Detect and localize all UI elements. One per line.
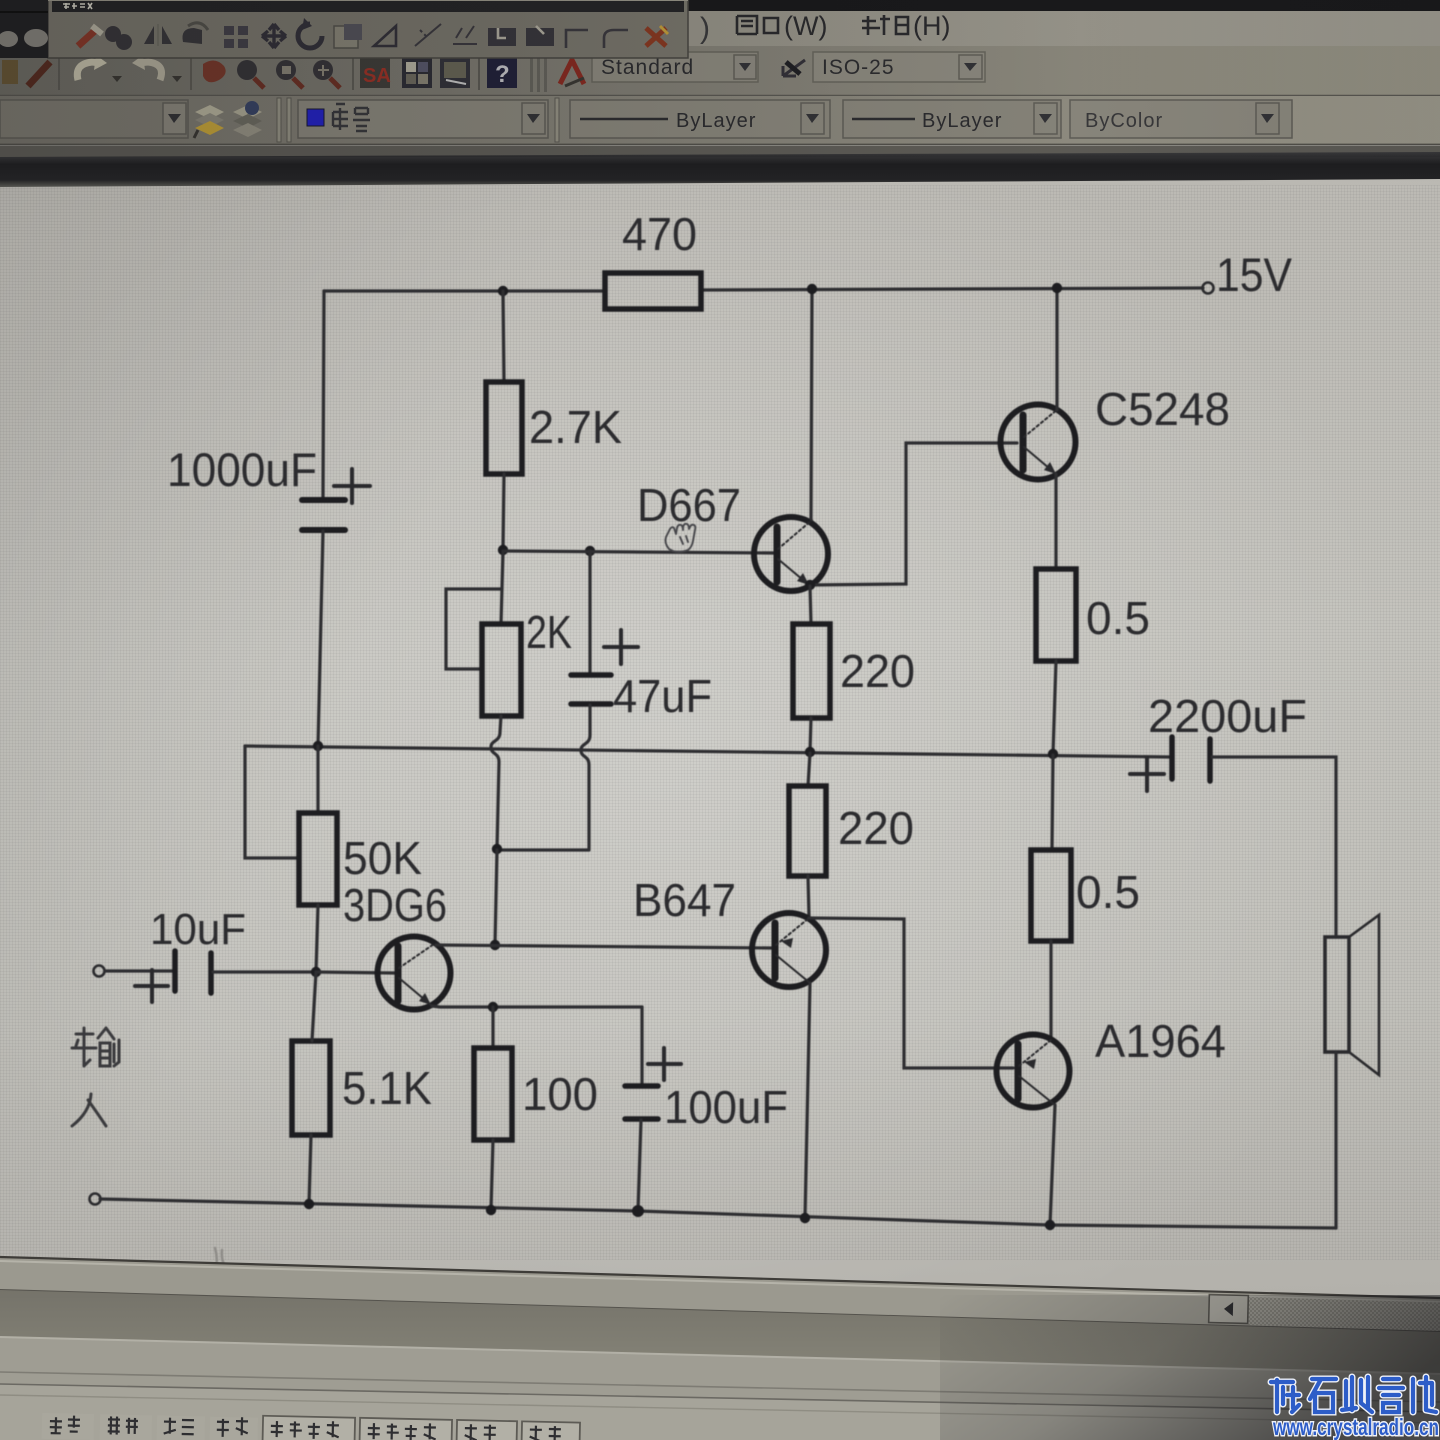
shadow strip under rows bbox=[0, 146, 1440, 157]
label: 1000uF plus sign bbox=[334, 469, 370, 503]
object properties row bbox=[0, 96, 1440, 145]
standard toolbar row bbox=[0, 46, 1440, 96]
label: 1000uF bbox=[167, 443, 317, 496]
svg-text:220: 220 bbox=[838, 802, 914, 854]
label: 50K bbox=[343, 832, 422, 884]
svg-text:47uF: 47uF bbox=[613, 670, 712, 722]
label: 5.1K bbox=[342, 1062, 432, 1114]
label: 2K bbox=[526, 606, 572, 658]
transistor Q1 3DG6 bbox=[378, 937, 451, 1010]
label: 470 bbox=[622, 208, 697, 260]
wire: 220 upper top lead bbox=[810, 586, 811, 624]
junction dot bias node right bbox=[585, 546, 595, 556]
wire: input terminal to 10uF bbox=[105, 969, 173, 972]
standard style combo bbox=[592, 52, 758, 82]
label: 3DG6 bbox=[343, 879, 447, 931]
wire: 0.5 lower bottom to A1964 collector bbox=[1049, 941, 1052, 1040]
wire: B647 collector node runs bbox=[809, 918, 1013, 1068]
svg-text:0.5: 0.5 bbox=[1086, 592, 1150, 644]
junction dot bottom rail A1964 bbox=[1045, 1220, 1055, 1230]
junction dot bottom rail 5.1K bbox=[304, 1199, 314, 1209]
wire: left supply drop to 1000uF bbox=[323, 291, 324, 499]
wire: 220 lower top lead bbox=[808, 753, 810, 786]
svg-text:220: 220 bbox=[840, 645, 915, 697]
button lineweight bbox=[456, 1420, 517, 1440]
svg-text:100uF: 100uF bbox=[664, 1081, 788, 1133]
dark top-left corner bbox=[0, 0, 48, 58]
transistor Q4 C5248 bbox=[1001, 405, 1076, 480]
wire: 2K/47uF tie bar bbox=[497, 848, 589, 851]
command window band bbox=[0, 1290, 1440, 1440]
label: A1964 bbox=[1095, 1015, 1226, 1067]
transistor Q5 A1964 bbox=[997, 1035, 1070, 1108]
resistor 0.5 upper bbox=[1036, 569, 1076, 661]
wire: speaker bottom to rail bbox=[1334, 1052, 1337, 1228]
node: 15V terminal bbox=[1203, 283, 1214, 294]
wire: 2K bottom lead with crossover jog at mid rail bbox=[491, 716, 501, 849]
label: 47uF plus sign bbox=[604, 630, 638, 664]
wire: 50K wiper arm bbox=[245, 746, 299, 858]
separator ridges bbox=[277, 98, 291, 142]
resistor 100 bbox=[474, 1048, 512, 1140]
transistor Q3 B647 bbox=[752, 913, 826, 987]
label: 0.5 lower bbox=[1076, 866, 1140, 918]
resistor 220 upper bbox=[793, 624, 830, 718]
wire: tie bar down to B647 base line bbox=[495, 850, 497, 945]
wire: D667 emitter node runs bbox=[810, 443, 1017, 585]
lcd texture bbox=[0, 185, 1440, 1260]
svg-text:2K: 2K bbox=[526, 606, 572, 658]
junction dot D667 emitter bbox=[805, 580, 815, 590]
wire: D667 collector to rail bbox=[811, 289, 812, 519]
label: B647 bbox=[633, 874, 736, 926]
wire: 100 bottom lead bbox=[491, 1140, 493, 1210]
wire: 5.1K top lead bbox=[312, 972, 316, 1041]
junction dot top rail C5248 bbox=[1052, 283, 1062, 293]
wire: 2.7K top lead bbox=[503, 291, 504, 382]
svg-text:2.7K: 2.7K bbox=[529, 401, 622, 453]
junction dot on B647 base line bbox=[490, 940, 500, 950]
wire: C5248 emitter to 0.5 bbox=[1054, 474, 1057, 569]
color combo with blue swatch bbox=[298, 100, 548, 138]
layer icons bbox=[194, 101, 262, 138]
button grid bbox=[100, 1414, 153, 1440]
junction dot at 470 / 2.7K node bbox=[498, 286, 508, 296]
label: 0.5 upper bbox=[1086, 592, 1150, 644]
wire: 3DG6 collector to B647 base bbox=[436, 945, 771, 948]
label: 10uF plus sign bbox=[135, 970, 168, 1002]
junction dot bottom rail B647 bbox=[800, 1213, 810, 1223]
wire: 1000uF negative to mid rail bbox=[318, 531, 323, 746]
wire: 100uF top lead bbox=[640, 1007, 643, 1085]
label: input chinese ru bbox=[72, 1094, 106, 1126]
button otrack bbox=[359, 1418, 452, 1440]
dark band top of drawing area bbox=[0, 152, 1440, 187]
svg-text:D667: D667 bbox=[637, 479, 741, 531]
dim style icon bbox=[783, 60, 805, 76]
wire: bias node to D667 base bbox=[503, 551, 773, 553]
row1 icons bbox=[2, 54, 584, 92]
label: input chinese shu bbox=[72, 1028, 119, 1066]
label: 2200uF bbox=[1148, 690, 1307, 742]
junction dot 50K top at rail bbox=[313, 741, 323, 751]
button model bbox=[521, 1421, 580, 1440]
junction dot top rail D667 bbox=[807, 284, 817, 294]
junction dot base node 3DG6 bbox=[311, 967, 321, 977]
junction dot mid rail right bbox=[1048, 749, 1058, 759]
linetype combo ByLayer bbox=[570, 100, 830, 138]
svg-text:C5248: C5248 bbox=[1095, 383, 1230, 435]
resistor 470 bbox=[605, 273, 701, 309]
top chrome bbox=[0, 0, 1440, 192]
wire: 3DG6 emitter run bbox=[432, 1006, 642, 1007]
label: 100uF bbox=[664, 1081, 788, 1133]
separator ridges bbox=[555, 98, 559, 142]
svg-text:www.crystalradio.cn: www.crystalradio.cn bbox=[1272, 1414, 1439, 1440]
svg-text:3DG6: 3DG6 bbox=[343, 879, 447, 931]
wire: 2200uF to speaker bbox=[1212, 757, 1336, 937]
wire: 5.1K bottom lead bbox=[309, 1135, 311, 1204]
menu bar strip bbox=[0, 0, 1440, 46]
smudge mark bbox=[215, 1248, 227, 1274]
status bar bbox=[0, 1372, 1440, 1440]
node: input terminal top bbox=[94, 966, 105, 977]
label: 47uF bbox=[613, 670, 712, 722]
wire: +15V top rail right segment bbox=[701, 288, 1203, 290]
junction dot bottom rail 100 bbox=[486, 1205, 496, 1215]
label: 100uF plus sign bbox=[648, 1048, 681, 1080]
button ortho bbox=[157, 1415, 206, 1440]
label: 2200uF plus sign bbox=[1130, 758, 1164, 791]
wire: 2.7K bottom lead to bias node bbox=[503, 474, 504, 550]
svg-text:5.1K: 5.1K bbox=[342, 1062, 432, 1114]
svg-text:10uF: 10uF bbox=[150, 905, 246, 954]
svg-text:A1964: A1964 bbox=[1095, 1015, 1226, 1067]
capacitor C 1000uF plates bbox=[302, 500, 345, 530]
svg-text:50K: 50K bbox=[343, 832, 422, 884]
label: 100 bbox=[522, 1068, 598, 1120]
wire: 2K top lead bbox=[501, 551, 503, 624]
wire: A1964 emitter to bottom rail bbox=[1050, 1105, 1055, 1225]
svg-text:2200uF: 2200uF bbox=[1148, 690, 1307, 742]
capacitor C 10uF plates bbox=[175, 951, 211, 993]
resistor 2.7K bbox=[486, 382, 522, 474]
bottom chrome bbox=[0, 1240, 1440, 1440]
layer combo empty bbox=[0, 100, 188, 138]
wire: C5248 collector to rail bbox=[1055, 288, 1058, 410]
ISO-25 combo bbox=[813, 52, 985, 82]
cursor: pan hand icon bbox=[665, 524, 695, 552]
junction dot emitter node bbox=[488, 1002, 498, 1012]
speaker LS1 bbox=[1325, 915, 1379, 1075]
wire: 0.5 lower top lead bbox=[1052, 755, 1053, 850]
transistor Q2 D667 bbox=[754, 517, 828, 591]
node: input terminal bottom bbox=[90, 1194, 101, 1205]
button polar bbox=[210, 1417, 259, 1440]
label: 2.7K bbox=[529, 401, 622, 453]
floating modify toolbar bbox=[48, 0, 688, 58]
button osnap bbox=[263, 1416, 356, 1440]
capacitor C 47uF plates bbox=[571, 675, 611, 704]
label: C5248 bbox=[1095, 383, 1230, 435]
wire: 2K wiper short bracket bbox=[446, 589, 502, 669]
wire: mid output rail bbox=[245, 746, 1170, 757]
resistor 5.1K bbox=[292, 1041, 330, 1135]
wire: 100 top lead bbox=[491, 1007, 494, 1048]
plot style combo ByColor bbox=[1070, 100, 1292, 138]
svg-text:15V: 15V bbox=[1216, 248, 1293, 301]
svg-text:0.5: 0.5 bbox=[1076, 866, 1140, 918]
resistor 220 lower bbox=[789, 786, 826, 876]
svg-text:100: 100 bbox=[522, 1068, 598, 1120]
resistor 50K (pot) bbox=[299, 813, 337, 905]
wire: base node to 3DG6 bbox=[316, 972, 394, 973]
wire: 100uF bottom lead bbox=[638, 1120, 641, 1211]
watermark bbox=[1140, 1358, 1440, 1440]
lineweight combo ByLayer bbox=[843, 100, 1061, 138]
horizontal scrollbar band bbox=[0, 1257, 1440, 1332]
button snap bbox=[42, 1413, 95, 1440]
label: 15V bbox=[1216, 248, 1293, 301]
label: 220 lower bbox=[838, 802, 914, 854]
svg-text:B647: B647 bbox=[633, 874, 736, 926]
wire: B647 emitter to bottom rail bbox=[805, 983, 810, 1218]
capacitor C 100uF plates bbox=[625, 1086, 658, 1119]
junction dot mid rail left bbox=[805, 747, 815, 757]
junction dot bottom rail 100uF bbox=[632, 1205, 644, 1217]
modify icons bbox=[78, 18, 668, 50]
junction dot 2K-47uF tie bbox=[492, 844, 502, 854]
wire: 47uF bottom lead with crossover jog at mid rail bbox=[581, 705, 590, 849]
dark right corner vignette bbox=[940, 1295, 1440, 1440]
wire: 0.5 upper bottom to mid rail bbox=[1053, 661, 1056, 754]
wire: bottom rail bbox=[100, 1199, 1336, 1228]
scrollbar left arrow button bbox=[1209, 1295, 1249, 1324]
wire: 220 lower bottom to B647 collector bbox=[808, 876, 809, 917]
label: 220 upper bbox=[840, 645, 915, 697]
svg-text:1000uF: 1000uF bbox=[167, 443, 317, 496]
resistor 2K (preset) bbox=[482, 624, 521, 716]
wire: 50K bottom to input base node bbox=[316, 905, 318, 972]
wire: 50K top lead bbox=[316, 746, 319, 813]
label: 10uF bbox=[150, 905, 246, 954]
capacitor C 2200uF plates bbox=[1172, 737, 1210, 781]
svg-text:470: 470 bbox=[622, 208, 697, 260]
photo dimming overlay on chrome bbox=[0, 0, 1440, 157]
wire: 220 upper bottom lead bbox=[810, 718, 811, 752]
wire: +15V top rail left segment bbox=[324, 289, 605, 292]
status buttons group (sloped) bbox=[42, 1411, 580, 1440]
resistor 0.5 lower bbox=[1031, 850, 1071, 941]
junction dot bias node left bbox=[498, 545, 508, 555]
wire: 10uF to base node bbox=[213, 970, 316, 973]
menu text window(W) help(H) bbox=[700, 11, 950, 45]
label: D667 bbox=[637, 479, 741, 531]
wire: 47uF top lead bbox=[588, 551, 591, 674]
